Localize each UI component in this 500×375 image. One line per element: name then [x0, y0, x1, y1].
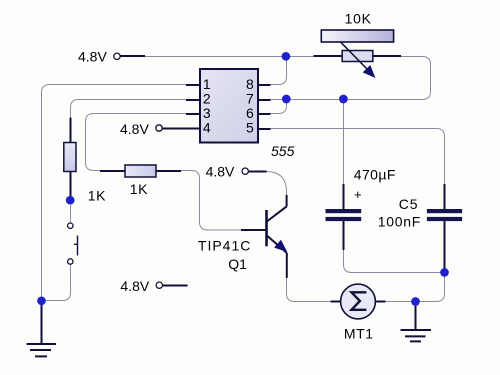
svg-text:+: +: [354, 187, 362, 202]
svg-text:100nF: 100nF: [378, 213, 421, 229]
svg-text:4: 4: [203, 119, 211, 135]
svg-text:TIP41C: TIP41C: [198, 237, 251, 253]
svg-text:470µF: 470µF: [354, 167, 396, 183]
svg-text:Q1: Q1: [228, 256, 247, 272]
svg-text:5: 5: [246, 119, 254, 135]
svg-text:4.8V: 4.8V: [206, 163, 235, 179]
svg-text:10K: 10K: [345, 10, 372, 26]
svg-text:4.8V: 4.8V: [120, 278, 149, 294]
svg-text:1K: 1K: [88, 188, 107, 204]
svg-text:555: 555: [271, 143, 295, 159]
svg-text:C5: C5: [399, 196, 419, 212]
svg-text:1K: 1K: [130, 181, 149, 197]
svg-text:MT1: MT1: [344, 326, 374, 342]
svg-text:4.8V: 4.8V: [120, 121, 149, 137]
svg-text:4.8V: 4.8V: [78, 48, 107, 64]
